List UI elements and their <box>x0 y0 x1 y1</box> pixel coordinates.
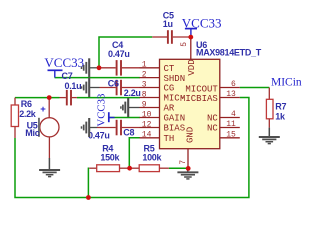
ground (left-pointing, row AR pin9) <box>121 98 140 117</box>
net label MICin <box>271 76 302 88</box>
svg-text:13: 13 <box>226 90 236 99</box>
pin number 8 <box>142 90 147 99</box>
IC U6 pin name TH <box>164 134 175 144</box>
power port VCC33 (rotated, at GAIN) <box>96 94 115 127</box>
pin number 15 <box>226 130 236 139</box>
pin number 14 <box>142 131 152 140</box>
svg-text:AR: AR <box>164 104 175 114</box>
capacitor C5 <box>152 30 191 44</box>
svg-text:2.2k: 2.2k <box>19 109 37 119</box>
svg-text:150k: 150k <box>100 153 120 163</box>
wire SHDN row from VCC33 port <box>55 77 140 79</box>
IC U6 pin name GAIN <box>164 114 186 124</box>
ground (below microphone U5) <box>39 158 60 177</box>
svg-text:Mic: Mic <box>25 128 39 138</box>
svg-text:4: 4 <box>231 110 236 119</box>
IC U6 pin name AR <box>164 104 175 114</box>
resistor R5 <box>129 165 169 172</box>
svg-text:C8: C8 <box>123 128 134 138</box>
pin number 6 <box>231 80 236 89</box>
svg-text:SHDN: SHDN <box>164 74 186 84</box>
pin number 10 <box>142 110 152 119</box>
IC U6 left pin stubs <box>140 68 160 138</box>
pin number 12 <box>142 120 152 129</box>
wire R4 left branch down to bottom net <box>87 168 90 197</box>
IC U6 pin name CG <box>164 84 175 94</box>
pin number 11 <box>226 120 236 129</box>
value 0.47u (C8) <box>88 131 110 141</box>
designator R7 <box>275 102 286 112</box>
svg-text:2.2u: 2.2u <box>124 88 141 98</box>
wire TH row down to R4/R5 junction <box>129 138 140 168</box>
IC U6 pin name VDD (rotated) <box>187 59 197 75</box>
svg-text:11: 11 <box>226 120 236 129</box>
designator R6 <box>21 99 32 109</box>
wire MICOUT to MICin <box>240 87 269 89</box>
ground (below R7) <box>259 128 280 144</box>
ground (left-pointing, row CG/C6) <box>82 78 100 97</box>
wire R5 right to pin7 GND junction <box>169 167 188 169</box>
pin number 4 <box>231 110 236 119</box>
svg-text:MICBIAS: MICBIAS <box>180 94 218 104</box>
designator C5 <box>163 10 174 20</box>
capacitor C8 <box>97 120 140 136</box>
svg-text:0.47u: 0.47u <box>108 49 130 59</box>
value 100k (R5) <box>142 153 162 163</box>
svg-text:1k: 1k <box>275 112 286 122</box>
svg-text:5: 5 <box>180 42 189 47</box>
svg-text:12: 12 <box>142 120 152 129</box>
svg-text:VDD: VDD <box>187 59 197 75</box>
power port VCC33 (top, at C5/VDD node) <box>182 15 222 37</box>
svg-text:2: 2 <box>142 70 147 79</box>
svg-text:GAIN: GAIN <box>164 114 186 124</box>
svg-text:C6: C6 <box>108 79 119 89</box>
junction dot row1/GND column <box>97 65 102 70</box>
value 150k (R4) <box>100 153 120 163</box>
junction dot VDD top node <box>188 35 193 40</box>
value MAX9814ETD_T <box>196 48 262 58</box>
IC U6 pin name CT <box>164 64 175 74</box>
wire mic row (MIC input net) <box>15 97 140 99</box>
IC U6 pin name BIAS <box>164 124 186 134</box>
IC U6 pin name MICBIAS <box>180 94 218 104</box>
svg-text:CT: CT <box>164 64 175 74</box>
wire bottom net from R6 around to MICBIAS pin 13 <box>15 98 249 198</box>
microphone U5 <box>38 98 59 159</box>
wire top GND-to-C5 segment and riser to row1 <box>99 37 152 68</box>
pin number 1 <box>142 61 147 70</box>
pin number 9 <box>142 100 147 109</box>
designator C7 <box>62 71 73 81</box>
value 1k (R7) <box>275 112 286 122</box>
junction dot R4/R5 <box>127 166 132 171</box>
svg-text:C7: C7 <box>62 71 73 81</box>
designator U6 <box>196 40 207 50</box>
svg-text:100k: 100k <box>142 153 162 163</box>
designator R4 <box>102 144 113 154</box>
value 2.2k (R6) <box>19 109 37 119</box>
junction dot mic tap <box>47 95 52 100</box>
svg-text:BIAS: BIAS <box>164 124 186 134</box>
svg-text:R7: R7 <box>275 102 286 112</box>
designator C8 <box>123 128 134 138</box>
svg-text:1: 1 <box>142 61 147 70</box>
IC U6 pin name SHDN <box>164 74 186 84</box>
svg-text:VCC33: VCC33 <box>96 94 108 127</box>
pin number 7 (rotated) <box>179 160 188 165</box>
svg-text:VCC33: VCC33 <box>182 15 222 30</box>
value 1u (C5) <box>163 19 173 29</box>
svg-text:VCC33: VCC33 <box>44 55 84 70</box>
IC U6 right pin stubs <box>220 88 240 138</box>
svg-text:3: 3 <box>142 80 147 89</box>
svg-text:MAX9814ETD_T: MAX9814ETD_T <box>196 48 262 58</box>
svg-text:8: 8 <box>142 90 147 99</box>
svg-text:15: 15 <box>226 130 236 139</box>
svg-text:0.1u: 0.1u <box>65 81 82 91</box>
mic plus polarity mark <box>40 104 46 115</box>
IC U6 pin name NC (pin 4) <box>207 114 218 124</box>
svg-text:+: + <box>40 104 46 115</box>
ground (left-pointing, row BIAS/C8) <box>82 118 98 137</box>
designator C6 <box>108 79 119 89</box>
pin number 5 (rotated) <box>180 42 189 47</box>
value Mic (U5) <box>25 128 39 138</box>
power port VCC33 (left, at SHDN) <box>44 55 84 78</box>
IC U6 pin 5 VDD stub <box>190 37 192 59</box>
IC U6 pin 7 GND stub <box>187 149 189 169</box>
IC U6 body <box>160 59 220 148</box>
svg-text:CG: CG <box>164 84 175 94</box>
svg-text:6: 6 <box>231 80 236 89</box>
wire GAIN row from VCC33 port <box>109 117 140 119</box>
junction dot bottom net <box>86 195 91 200</box>
svg-text:0.47u: 0.47u <box>88 131 110 141</box>
capacitor C4 <box>99 60 140 76</box>
svg-text:MICin: MICin <box>271 76 302 88</box>
value 2.2u (C6) <box>124 88 141 98</box>
svg-text:10: 10 <box>142 110 152 119</box>
designator U5 <box>27 121 38 131</box>
svg-text:NC: NC <box>207 114 218 124</box>
svg-text:7: 7 <box>179 160 188 165</box>
svg-text:MICOUT: MICOUT <box>185 84 218 94</box>
capacitor C6 <box>100 80 140 96</box>
pin number 3 <box>142 80 147 89</box>
svg-text:GND: GND <box>185 127 195 143</box>
capacitor C7 <box>60 90 77 106</box>
value 0.47u (C4) <box>108 49 130 59</box>
IC U6 pin name MICOUT <box>185 84 218 94</box>
designator R5 <box>144 143 155 153</box>
pin number 2 <box>142 70 147 79</box>
svg-text:14: 14 <box>142 131 152 140</box>
resistor R7 <box>266 88 273 128</box>
svg-text:9: 9 <box>142 100 147 109</box>
ground (left-pointing, row CT/C4) <box>82 58 100 77</box>
resistor R6 <box>11 98 18 138</box>
ground (below IC pin 7) <box>177 167 198 179</box>
junction dot pin7 node <box>186 166 191 171</box>
resistor R4 <box>89 165 129 172</box>
IC U6 pin name GND (rotated) <box>185 127 195 143</box>
pin number 13 <box>226 90 236 99</box>
designator C4 <box>112 40 123 50</box>
svg-text:TH: TH <box>164 134 175 144</box>
svg-text:NC: NC <box>207 124 218 134</box>
value 0.1u (C7) <box>65 81 82 91</box>
svg-text:R6: R6 <box>21 99 32 109</box>
svg-text:1u: 1u <box>163 19 173 29</box>
IC U6 pin name NC (pin 11) <box>207 124 218 134</box>
IC U6 pin name MIC- <box>164 94 186 104</box>
